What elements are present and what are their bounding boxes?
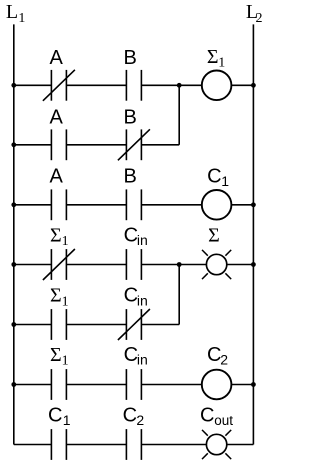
node: junction rung 1 at L1	[11, 83, 16, 88]
left rail L1	[13, 24, 15, 444]
contact SIGMA1 (NC) rung 4	[43, 249, 75, 280]
label Cout lamp	[200, 404, 233, 428]
wire lamp to L2 rung 4	[227, 264, 254, 266]
node: junction rung 5 at L1	[11, 322, 16, 327]
svg-text:C: C	[207, 165, 221, 187]
svg-text:C: C	[200, 404, 214, 426]
label C1 rung 7	[48, 404, 71, 428]
rung 6 wire L1 to contact SIGMA1	[14, 384, 52, 386]
lamp SIGMA	[202, 250, 231, 279]
label A rung 1	[50, 47, 64, 69]
contact SIGMA1 (NO) rung 5	[51, 309, 66, 340]
label SIGMA1 rung 6	[50, 344, 69, 369]
contact A (NO) rung 2	[51, 129, 66, 160]
wire contact A to contact B rung 2	[66, 144, 126, 146]
node: junction rung 4 at L1	[11, 262, 16, 267]
label SIGMA lamp	[208, 224, 220, 246]
label A rung 3	[50, 165, 64, 187]
wire contact SIGMA1 to contact Cin rung 6	[66, 384, 126, 386]
label SIGMA1 coil	[207, 46, 225, 71]
node: junction rung 1 at L2	[251, 83, 256, 88]
contact C2 (NO) rung 7	[126, 429, 141, 460]
rung 3 wire L1 to contact A	[14, 204, 52, 206]
label Cin rung 4	[124, 224, 148, 248]
contact A (NO) rung 3	[51, 189, 66, 220]
svg-text:1: 1	[62, 234, 69, 249]
wire contact SIGMA1 to contact Cin rung 4	[66, 264, 126, 266]
svg-text:2: 2	[136, 412, 144, 428]
svg-text:C: C	[124, 344, 138, 366]
svg-text:out: out	[214, 413, 233, 428]
contact A (NC) rung 1	[43, 70, 75, 101]
wire contact B to coil rung 3	[141, 204, 201, 206]
contact B (NO) rung 3	[126, 189, 141, 220]
svg-text:C: C	[123, 404, 137, 426]
node: junction rung 2 at L1	[11, 142, 16, 147]
svg-text:1: 1	[62, 354, 69, 369]
label Cin rung 5	[124, 285, 148, 309]
svg-text:B: B	[124, 106, 137, 128]
node: junction rung 3 at L2	[251, 202, 256, 207]
wire contact A to contact B rung 1	[66, 84, 126, 86]
wire contact B to coil rung 1	[141, 84, 201, 86]
svg-text:Σ: Σ	[50, 344, 62, 366]
wire lamp to L2 corner rung 7	[227, 444, 254, 446]
node: junction rung 6 at L1	[11, 382, 16, 387]
wire coil to L2 rung 3	[231, 204, 253, 206]
label L1	[6, 1, 26, 26]
svg-text:1: 1	[62, 294, 69, 309]
wire contact B to branch rung 2	[141, 144, 179, 146]
label Cin rung 6	[124, 344, 148, 368]
node: branch junction rung 1	[177, 83, 182, 88]
wire contact C1 to contact C2 rung 7	[66, 444, 126, 446]
svg-text:in: in	[137, 232, 148, 248]
wire contact Cin to lamp rung 4	[141, 264, 206, 266]
rung 7 wire L1 corner to contact C1	[14, 444, 52, 446]
contact C1 (NO) rung 7	[51, 429, 66, 460]
coil C2	[202, 370, 232, 400]
svg-text:Σ: Σ	[207, 46, 219, 68]
right rail L2	[252, 24, 254, 444]
label B rung 1	[124, 47, 137, 69]
wire contact A to contact B rung 3	[66, 204, 126, 206]
wire contact Cin to coil rung 6	[141, 384, 201, 386]
node: junction rung 3 at L1	[11, 202, 16, 207]
contact Cin (NC) rung 5	[118, 309, 150, 340]
label B rung 2	[124, 106, 137, 128]
svg-text:1: 1	[63, 412, 71, 428]
label C2 coil	[207, 344, 228, 368]
wire coil to L2 rung 1	[231, 84, 253, 86]
svg-text:L: L	[6, 1, 18, 23]
svg-text:Σ: Σ	[50, 285, 62, 307]
contact Cin (NO) rung 6	[126, 369, 141, 400]
svg-text:B: B	[124, 165, 137, 187]
svg-text:A: A	[50, 165, 64, 187]
label SIGMA1 rung 4	[50, 224, 69, 249]
svg-text:1: 1	[221, 173, 229, 189]
svg-text:in: in	[137, 292, 148, 308]
label A rung 2	[50, 106, 64, 128]
contact B (NC) rung 2	[118, 129, 150, 160]
label C2 rung 7	[123, 404, 145, 428]
contact Cin (NO) rung 4	[126, 249, 141, 280]
wire contact SIGMA1 to contact Cin rung 5	[66, 324, 126, 326]
svg-text:Σ: Σ	[50, 224, 62, 246]
label L2	[246, 1, 263, 26]
svg-text:1: 1	[18, 11, 25, 26]
rung 4 wire L1 to contact SIGMA1	[14, 264, 52, 266]
svg-text:B: B	[124, 47, 137, 69]
node: branch junction rung 4	[177, 262, 182, 267]
contact SIGMA1 (NO) rung 6	[51, 369, 66, 400]
svg-text:1: 1	[218, 56, 225, 71]
svg-text:A: A	[50, 106, 64, 128]
node: junction rung 4 at L2	[251, 262, 256, 267]
coil C1	[202, 190, 232, 220]
wire contact C2 to lamp rung 7	[141, 444, 206, 446]
label B rung 3	[124, 165, 137, 187]
svg-text:C: C	[124, 224, 138, 246]
wire contact Cin to branch rung 5	[141, 324, 179, 326]
svg-text:C: C	[124, 285, 138, 307]
svg-text:in: in	[137, 352, 148, 368]
label C1 coil	[207, 165, 229, 189]
svg-text:2: 2	[220, 352, 228, 368]
svg-text:A: A	[50, 47, 64, 69]
svg-text:C: C	[48, 404, 62, 426]
coil SIGMA1	[202, 71, 232, 101]
label SIGMA1 rung 5	[50, 285, 69, 310]
wire branch rung 5 up to rung 4	[178, 265, 180, 325]
svg-text:Σ: Σ	[208, 224, 220, 246]
rung 2 wire L1 to contact A	[14, 144, 52, 146]
lamp Cout	[202, 430, 231, 459]
contact B (NO) rung 1	[126, 70, 141, 101]
rung 5 wire L1 to contact SIGMA1	[14, 324, 52, 326]
wire coil to L2 rung 6	[231, 384, 253, 386]
rung 1 wire L1 to contact A	[14, 84, 52, 86]
svg-text:2: 2	[256, 11, 263, 26]
wire branch rung 2 up to rung 1	[178, 85, 180, 145]
node: junction rung 6 at L2	[251, 382, 256, 387]
svg-text:C: C	[207, 344, 221, 366]
